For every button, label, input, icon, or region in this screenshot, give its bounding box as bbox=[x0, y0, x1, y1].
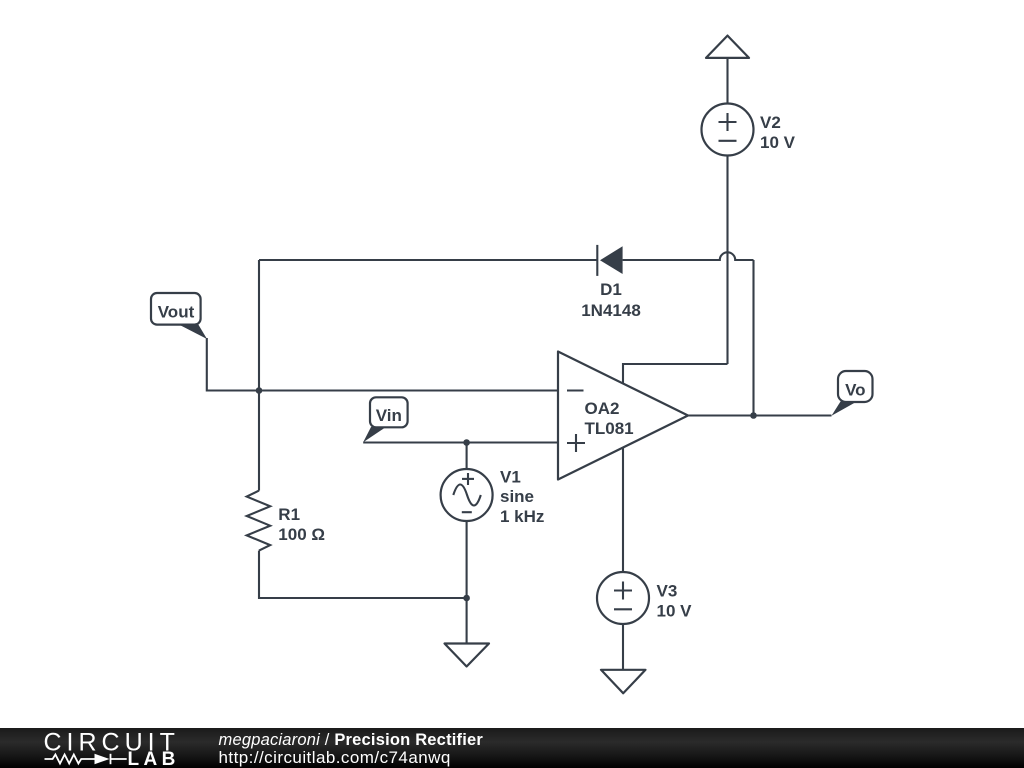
op-amp OA2 bbox=[558, 352, 688, 480]
label R1 100 Ω bbox=[278, 505, 325, 544]
svg-text:LAB: LAB bbox=[128, 749, 180, 768]
CircuitLab logo bbox=[44, 729, 180, 768]
svg-text:10 V: 10 V bbox=[657, 601, 693, 620]
voltage source V1 sine bbox=[441, 469, 493, 521]
svg-text:Vout: Vout bbox=[158, 303, 195, 322]
svg-text:V3: V3 bbox=[657, 582, 678, 601]
credits title bbox=[219, 731, 484, 749]
wire V1 to bottom rail bbox=[466, 521, 468, 598]
ground symbol under V3 bbox=[601, 670, 646, 694]
svg-text:OA2: OA2 bbox=[585, 399, 620, 418]
label V3 10 V bbox=[657, 582, 693, 621]
wire bottom rail to ground bbox=[466, 598, 468, 644]
svg-text:R1: R1 bbox=[278, 505, 300, 524]
label V2 10 V bbox=[760, 113, 796, 152]
wire Vout flag to inverting node bbox=[207, 338, 259, 391]
junction dot Vin node bbox=[463, 439, 470, 446]
svg-text:Vin: Vin bbox=[376, 406, 402, 425]
diode D1 bbox=[597, 245, 622, 276]
wire arrow to V2 bbox=[726, 58, 728, 104]
svg-text:1 kHz: 1 kHz bbox=[500, 507, 544, 526]
wire Vin to op-amp plus input bbox=[363, 441, 558, 443]
ground symbol under V1 bbox=[445, 644, 490, 667]
wire left feedback branch (Vout node up to diode) bbox=[258, 260, 260, 491]
label V1 sine 1 kHz bbox=[500, 467, 544, 526]
svg-text:V2: V2 bbox=[760, 113, 781, 132]
wire V3 to ground bbox=[622, 624, 624, 670]
svg-text:10 V: 10 V bbox=[760, 133, 796, 152]
wire diode to right corner with hop over V2 wire bbox=[623, 252, 754, 260]
junction dot inverting node bbox=[256, 387, 263, 394]
svg-text:100 Ω: 100 Ω bbox=[278, 525, 325, 544]
svg-text:TL081: TL081 bbox=[585, 419, 634, 438]
label OA2 TL081 bbox=[585, 399, 634, 438]
wire op-amp output bbox=[688, 414, 832, 416]
wire R1 to bottom rail bbox=[259, 551, 467, 598]
voltage source V3 bbox=[597, 572, 649, 624]
svg-text:megpaciaroni / Precision Recti: megpaciaroni / Precision Rectifier bbox=[219, 731, 484, 749]
wire op-amp V- pin to V3 bbox=[622, 448, 624, 572]
wire Vin node down to V1 bbox=[466, 443, 468, 470]
net flag Vin bbox=[363, 397, 407, 442]
resistor R1 bbox=[247, 491, 271, 551]
net flag Vo bbox=[832, 371, 873, 416]
footer bar bbox=[0, 728, 1024, 768]
svg-text:Vo: Vo bbox=[845, 381, 865, 400]
wire corner to op-amp V+ pin bbox=[623, 364, 728, 384]
junction dot bottom rail bbox=[463, 595, 470, 602]
svg-text:1N4148: 1N4148 bbox=[581, 301, 641, 320]
credits url bbox=[219, 748, 451, 767]
svg-text:http://circuitlab.com/c74anwq: http://circuitlab.com/c74anwq bbox=[219, 748, 451, 767]
wire feedback drop to output node bbox=[752, 260, 754, 416]
junction dot output node bbox=[750, 412, 757, 419]
wire inverting node to op-amp minus input bbox=[259, 389, 558, 391]
voltage source V2 bbox=[702, 104, 754, 156]
wire V2 down to supply corner (passes under hop) bbox=[726, 156, 728, 365]
wire feedback top left run bbox=[259, 259, 597, 261]
power supply arrow V+ bbox=[706, 36, 749, 58]
net flag Vout bbox=[151, 293, 207, 339]
svg-text:D1: D1 bbox=[600, 280, 622, 299]
svg-text:sine: sine bbox=[500, 487, 534, 506]
label D1 1N4148 bbox=[581, 280, 641, 320]
svg-text:V1: V1 bbox=[500, 467, 521, 486]
